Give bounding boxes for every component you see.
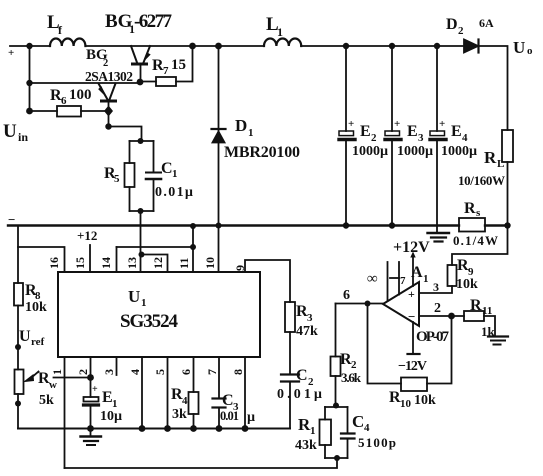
svg-text:10: 10: [400, 398, 412, 410]
diode D1 column: [218, 46, 220, 272]
svg-text:-6277: -6277: [134, 11, 173, 32]
capacitor C1: [153, 141, 155, 172]
svg-text:10k: 10k: [456, 277, 478, 292]
capacitor E3: [391, 46, 393, 131]
diode D2: [464, 40, 478, 53]
svg-text:in: in: [18, 130, 28, 144]
svg-text:10µ: 10µ: [100, 409, 122, 424]
inductor L1: [264, 38, 301, 46]
svg-text:0.1/4W: 0.1/4W: [453, 233, 498, 248]
svg-text:2: 2: [103, 58, 108, 69]
resistor RL: [502, 130, 513, 162]
IC U1 SG3524 box: [58, 272, 260, 357]
ground at bus: [436, 226, 438, 233]
svg-text:7: 7: [205, 369, 219, 375]
svg-text:5k: 5k: [39, 393, 54, 408]
svg-text:+: +: [394, 118, 400, 130]
wire BG2 emitter down: [108, 111, 110, 127]
svg-text:13: 13: [125, 257, 139, 269]
svg-text:1: 1: [172, 168, 178, 180]
resistor R5: [129, 141, 131, 163]
svg-text:∞: ∞: [367, 271, 378, 287]
svg-text:MBR20100: MBR20100: [224, 144, 300, 161]
svg-text:3: 3: [307, 312, 313, 324]
svg-text:2: 2: [434, 301, 441, 316]
svg-text:6A: 6A: [479, 16, 494, 30]
svg-text:3.6k: 3.6k: [341, 370, 362, 385]
svg-text:L: L: [497, 158, 504, 170]
capacitor C2: [281, 373, 299, 375]
svg-text:6: 6: [343, 288, 350, 303]
wire base rail y83: [30, 82, 141, 84]
svg-text:+12: +12: [77, 228, 97, 243]
svg-text:OP-07: OP-07: [416, 329, 450, 345]
svg-text:U: U: [3, 121, 17, 142]
svg-text:0.01µ: 0.01µ: [155, 185, 193, 200]
svg-text:1: 1: [310, 425, 316, 437]
svg-text:A: A: [411, 264, 423, 281]
ground at R11: [488, 335, 508, 337]
wire R9 to op-amp input 3: [419, 286, 452, 293]
svg-text:+: +: [92, 384, 98, 395]
capacitor E2: [345, 46, 347, 131]
svg-text:+: +: [348, 118, 354, 130]
wire R7 row: [140, 81, 156, 83]
svg-text:−: −: [8, 212, 15, 227]
wire R6 row y111: [30, 110, 58, 112]
svg-text:R: R: [470, 297, 482, 314]
svg-text:R: R: [464, 200, 476, 217]
svg-text:1: 1: [50, 369, 64, 375]
svg-text:4: 4: [128, 369, 142, 375]
svg-text:7: 7: [163, 65, 169, 77]
wire snubber bottom to bus and pin13: [140, 211, 142, 272]
svg-text:D: D: [235, 116, 247, 135]
svg-text:C: C: [222, 392, 234, 409]
svg-text:+: +: [439, 118, 445, 130]
svg-text:µ: µ: [247, 410, 255, 425]
svg-text:−: −: [408, 309, 415, 324]
wire R9 feed: [452, 226, 508, 266]
svg-text:5: 5: [114, 173, 120, 185]
resistor R4: [189, 392, 199, 414]
svg-text:0.01µ: 0.01µ: [277, 387, 322, 402]
wire to snubber: [109, 127, 142, 142]
R1 C4 frame: [325, 407, 348, 458]
wire from D2 to output corner: [479, 46, 508, 130]
svg-text:1: 1: [423, 273, 429, 285]
op-amp +12V pin 7: [412, 255, 414, 286]
svg-text:6: 6: [179, 369, 193, 375]
svg-text:1000µ: 1000µ: [352, 144, 388, 159]
svg-text:3: 3: [433, 280, 439, 294]
pin8 wire: [244, 357, 246, 429]
resistor R3: [285, 302, 295, 332]
op-amp -12V pin 4: [412, 322, 414, 354]
svg-text:2: 2: [76, 369, 90, 375]
svg-text:12: 12: [151, 257, 165, 269]
svg-text:1: 1: [277, 25, 283, 39]
resistor R8: [14, 283, 23, 306]
svg-text:11: 11: [177, 258, 191, 269]
resistor R10: [401, 378, 427, 392]
potentiometer Rw: [15, 370, 24, 395]
svg-text:R: R: [484, 148, 497, 167]
svg-text:11: 11: [482, 305, 492, 317]
svg-text:+: +: [408, 287, 415, 301]
wire top rail right segment: [301, 45, 464, 47]
svg-text:1000µ: 1000µ: [441, 144, 477, 159]
svg-text:100: 100: [69, 87, 92, 103]
pin1 wire long: [64, 357, 66, 468]
svg-text:16: 16: [47, 257, 61, 269]
svg-text:4: 4: [364, 422, 370, 434]
snubber frame R5 C1: [130, 141, 154, 211]
wire lower return bus: [65, 458, 338, 468]
svg-text:2: 2: [458, 25, 464, 37]
svg-text:E: E: [407, 123, 418, 140]
resistor Rs: [459, 218, 485, 232]
resistor R11: [464, 311, 484, 321]
svg-text:o: o: [527, 45, 533, 57]
svg-text:E: E: [451, 123, 462, 140]
transistor BG2: [99, 84, 108, 100]
wire SG ground bus y428: [18, 428, 290, 430]
svg-text:10k: 10k: [25, 300, 47, 315]
pin3 stub: [116, 357, 118, 375]
svg-text:D: D: [446, 16, 458, 33]
svg-text:−12V: −12V: [398, 359, 427, 374]
svg-text:1: 1: [248, 127, 254, 139]
wire R6 to BG2 emitter: [81, 110, 109, 112]
pin9 wire to R3: [245, 260, 290, 302]
wire top rail mid segment: [85, 45, 264, 47]
svg-text:8: 8: [231, 369, 245, 375]
wire line A pins 14-11: [117, 246, 194, 248]
wire pin1 to pin2 tie: [54, 377, 91, 379]
svg-text:3: 3: [102, 369, 116, 375]
svg-text:s: s: [476, 207, 481, 219]
capacitor E1: [84, 397, 99, 402]
wire R10 feedback: [368, 304, 402, 384]
op-amp A1: [383, 282, 419, 326]
svg-text:10: 10: [203, 257, 217, 269]
svg-text:43k: 43k: [295, 438, 317, 453]
svg-text:1: 1: [141, 297, 147, 309]
svg-text:9: 9: [233, 265, 247, 271]
svg-text:4: 4: [462, 132, 468, 144]
resistor R1: [324, 407, 326, 420]
svg-text:10/160W: 10/160W: [458, 173, 505, 188]
svg-text:1000µ: 1000µ: [397, 144, 433, 159]
svg-text:w: w: [49, 379, 57, 391]
resistor R6: [57, 106, 81, 117]
svg-text:7: 7: [400, 275, 406, 287]
pin11 wire: [192, 226, 194, 272]
svg-text:C: C: [352, 412, 364, 431]
wire R11 to ground: [484, 316, 495, 336]
capacitor C3: [213, 397, 226, 399]
svg-text:10k: 10k: [414, 393, 436, 408]
svg-text:15: 15: [171, 57, 186, 73]
svg-text:6: 6: [61, 95, 67, 107]
wire bus after Rs: [485, 224, 508, 226]
svg-text:14: 14: [99, 257, 113, 269]
svg-text:47k: 47k: [296, 324, 318, 339]
pin6 wire with R4: [193, 357, 195, 392]
resistor R2 column: [335, 304, 337, 357]
svg-text:0.01: 0.01: [220, 409, 239, 423]
wire R10 to node 2: [427, 316, 452, 384]
svg-text:5100p: 5100p: [358, 435, 396, 450]
svg-text:ref: ref: [31, 336, 45, 348]
pin16 wire: [18, 247, 65, 272]
pin5 wire: [167, 357, 169, 429]
wire main bus y225: [8, 224, 459, 226]
svg-text:C: C: [161, 160, 173, 177]
svg-text:+: +: [8, 47, 14, 59]
inductor Lf: [50, 39, 85, 47]
wire top rail left segment: [10, 45, 50, 47]
wire node 6: [336, 303, 384, 305]
resistor R7: [156, 77, 176, 86]
svg-text:+12V: +12V: [393, 239, 430, 256]
svg-text:5: 5: [153, 369, 167, 375]
wire output 2: [419, 315, 464, 317]
svg-text:3: 3: [418, 132, 424, 144]
svg-text:1k: 1k: [481, 324, 496, 339]
wire input vertical: [29, 46, 31, 111]
resistor R9: [448, 265, 457, 286]
svg-text:C: C: [296, 367, 308, 384]
left column R8 Rw: [17, 226, 19, 284]
svg-text:E: E: [360, 123, 371, 140]
svg-text:3k: 3k: [172, 407, 187, 422]
svg-text:15: 15: [73, 257, 87, 269]
svg-text:4: 4: [182, 395, 188, 407]
pin7 wire with C3: [218, 357, 220, 398]
svg-text:U: U: [128, 287, 140, 306]
ground at E1: [90, 429, 92, 436]
pin2 wire with E1: [90, 357, 92, 397]
wire RL bottom to bus: [507, 162, 509, 226]
svg-text:SG3524: SG3524: [120, 311, 179, 332]
wire line B pins 13-12: [142, 255, 168, 273]
capacitor E4: [436, 46, 438, 131]
svg-text:2SA1302: 2SA1302: [85, 69, 133, 84]
wire R3 to C2: [289, 332, 291, 374]
pin4 wire: [141, 357, 143, 429]
op-amp stub pins: [387, 262, 389, 301]
svg-text:U: U: [513, 38, 525, 57]
capacitor C4: [347, 407, 349, 433]
pin14 wire: [116, 247, 118, 272]
wire R7 to rail: [176, 46, 193, 82]
svg-text:2: 2: [371, 132, 377, 144]
svg-text:U: U: [19, 328, 31, 345]
pin15 stub: [89, 245, 91, 272]
transistor BG1: [131, 46, 137, 63]
